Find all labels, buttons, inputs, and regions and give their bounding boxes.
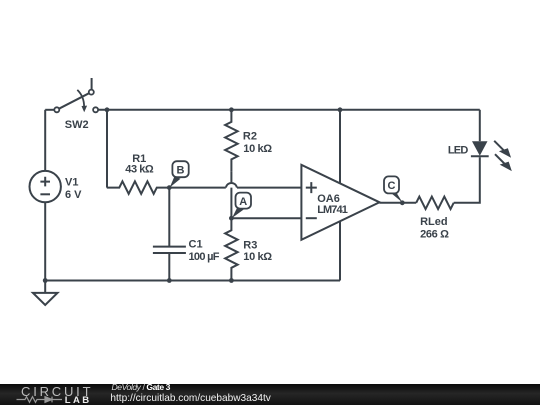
switch SW2 arrowhead [82,106,88,113]
switch SW2 lever [59,93,89,109]
svg-text:10 kΩ: 10 kΩ [243,251,272,263]
wire: top rail left segment to switch pole [45,109,54,111]
wire: node B row to op-amp + input [169,187,301,189]
svg-text:V1: V1 [65,177,78,189]
LED triangle [472,141,488,156]
svg-text:R3: R3 [243,240,257,252]
svg-text:R2: R2 [243,131,257,143]
switch SW2 throw stub [91,78,93,90]
wire: V1 top lead [44,110,46,171]
svg-text:SW2: SW2 [65,119,89,131]
wire: C1 top lead [168,188,170,247]
V1 plus sign [40,177,50,187]
wire: V1 bottom lead [44,202,46,280]
wire hop: B row crossing over vertical at x=231 [226,183,237,188]
svg-text:LM741: LM741 [317,204,348,216]
wire: op-amp output to RLed [380,202,417,204]
node C flag [384,176,403,202]
wire: LED cathode to RLed corner [454,157,480,203]
junction dot: node B [167,185,172,190]
switch SW2 pole circle [54,107,59,112]
svg-text:http://circuitlab.com/cuebabw3: http://circuitlab.com/cuebabw3a34tv [110,393,271,404]
wire: node A row to op-amp - input [231,217,301,219]
svg-text:6 V: 6 V [65,189,82,201]
junction dot: ground rail C1 [167,278,172,283]
op-amp OA6 triangle [301,165,379,240]
LED cathode bar [471,155,489,157]
svg-text:DeVoldy / Gate 3: DeVoldy / Gate 3 [112,382,171,392]
junction dot: switch output [105,107,110,112]
svg-text:B: B [177,164,185,176]
V1 minus sign [40,193,50,195]
junction dot: ground rail R3 [229,278,234,283]
resistor R2 [225,110,238,172]
wire: LED anode drop [479,110,481,141]
wire: bottom ground rail [45,280,340,282]
svg-text:266 Ω: 266 Ω [420,229,449,241]
ground symbol [33,281,58,306]
svg-text:C: C [388,180,396,192]
wire: R1 branch vertical [106,110,108,188]
junction dot: node A [229,216,234,221]
svg-text:10 kΩ: 10 kΩ [243,143,272,155]
junction dot: top rail op-amp V+ [338,107,343,112]
voltage source V1 circle [30,171,61,202]
junction dot: top rail R2 [229,107,234,112]
node B flag [170,161,189,187]
op-amp minus input symbol [306,217,317,219]
switch SW2 arrow arc [77,90,84,107]
LED light arrow 2 [495,154,506,165]
node A flag [232,193,251,218]
resistor R3 [225,218,238,280]
svg-text:LED: LED [448,144,468,156]
switch SW2 right terminal circle [93,107,98,112]
junction dot: node C [400,200,405,205]
svg-text:100 µF: 100 µF [189,251,220,263]
svg-text:OA6: OA6 [317,193,340,205]
logo doodle wire+resistor+diode [17,397,63,403]
wire: R2-R3 vertical link through hop [230,172,232,218]
resistor RLed [416,197,454,210]
wire: op-amp V+ drop [339,110,341,184]
LED light arrow 1 [494,141,505,152]
svg-text:RLed: RLed [420,216,448,228]
capacitor C1 plates [153,247,186,253]
wire: op-amp V- drop [339,221,341,280]
wire: top rail from switch to LED corner [98,109,480,111]
resistor R1 [107,181,170,194]
svg-text:43 kΩ: 43 kΩ [125,163,154,175]
svg-text:C1: C1 [189,238,203,250]
op-amp plus input symbol [306,182,317,193]
wire: C1 bottom lead [168,253,170,281]
junction dot: ground rail V1 [43,278,48,283]
svg-text:A: A [239,196,247,208]
svg-text:LAB: LAB [65,395,92,405]
switch SW2 throw circle [89,90,94,95]
